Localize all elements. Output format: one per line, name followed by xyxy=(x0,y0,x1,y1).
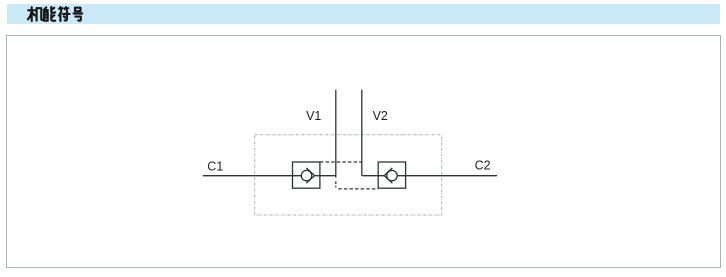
svg-text:C1: C1 xyxy=(207,159,223,173)
svg-text:V1: V1 xyxy=(306,109,321,123)
svg-text:C2: C2 xyxy=(475,158,491,172)
svg-text:V2: V2 xyxy=(373,109,388,123)
